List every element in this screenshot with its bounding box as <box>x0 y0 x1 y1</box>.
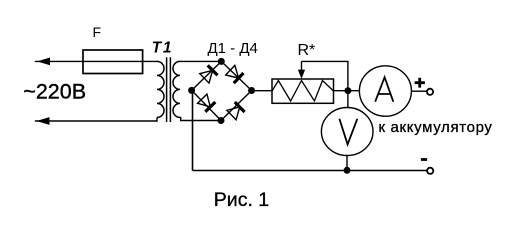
wire secondary bottom jog to bridge bottom node <box>180 117 221 120</box>
resistor R* wiper arrow <box>298 61 305 79</box>
wire primary bottom jog <box>156 117 157 121</box>
svg-text:Д1 - Д4: Д1 - Д4 <box>208 40 258 57</box>
voltmeter letter V <box>339 119 357 145</box>
node voltmeter rail junction <box>344 167 351 174</box>
arrow bottom AC lead <box>37 117 50 125</box>
terminal minus <box>427 168 433 174</box>
transformer core <box>167 57 171 122</box>
voltmeter U-V body <box>321 108 373 156</box>
wire top AC line <box>35 60 157 62</box>
wire bridge left node down to negative rail <box>192 90 194 170</box>
wire secondary top to bridge top node <box>180 60 221 62</box>
transformer T1 primary winding <box>157 61 164 117</box>
arrow top AC lead <box>37 58 50 66</box>
transformer T1 secondary winding <box>173 61 180 117</box>
svg-text:Рис. 1: Рис. 1 <box>214 189 269 211</box>
wire wiper bypass to right terminal <box>302 61 348 90</box>
label plus sign <box>415 78 425 88</box>
resistor R* body <box>272 79 334 103</box>
diode D1 (left to top arm) <box>199 65 217 83</box>
diode D4 (bottom to right arm) <box>227 102 245 120</box>
node bridge bottom <box>218 117 225 124</box>
svg-text:~220В: ~220В <box>23 80 86 104</box>
svg-text:к аккумулятору: к аккумулятору <box>379 119 493 136</box>
wire negative rail <box>193 170 428 172</box>
diode D3 (left to bottom arm) <box>197 94 215 112</box>
svg-text:F: F <box>93 24 102 40</box>
label minus sign <box>421 158 427 161</box>
wire ammeter to plus terminal <box>411 90 427 92</box>
diode D2 (top to right arm) <box>225 65 243 83</box>
wire bottom AC line <box>35 120 157 122</box>
ammeter letter A <box>375 77 393 102</box>
wire bridge side left-bottom <box>192 90 221 120</box>
wire rheostat to ammeter <box>334 90 360 92</box>
node bridge left <box>188 87 195 94</box>
svg-text:Т1: Т1 <box>152 40 173 57</box>
wire bridge side left-top <box>192 61 222 90</box>
node bridge top <box>218 58 225 65</box>
ammeter U-A body <box>359 66 411 116</box>
wire bridge side bottom-right <box>221 91 252 121</box>
node bridge right <box>248 87 255 94</box>
wire bridge side top-right <box>221 61 251 90</box>
resistor R* zigzag <box>272 81 334 102</box>
fuse F <box>83 50 143 74</box>
svg-text:R*: R* <box>298 42 316 59</box>
wire bridge right node to rheostat <box>252 90 272 92</box>
wire junction down to voltmeter <box>347 91 349 108</box>
node rheostat output junction <box>344 87 351 94</box>
terminal plus <box>427 89 433 95</box>
wire voltmeter down to negative rail <box>346 155 348 171</box>
